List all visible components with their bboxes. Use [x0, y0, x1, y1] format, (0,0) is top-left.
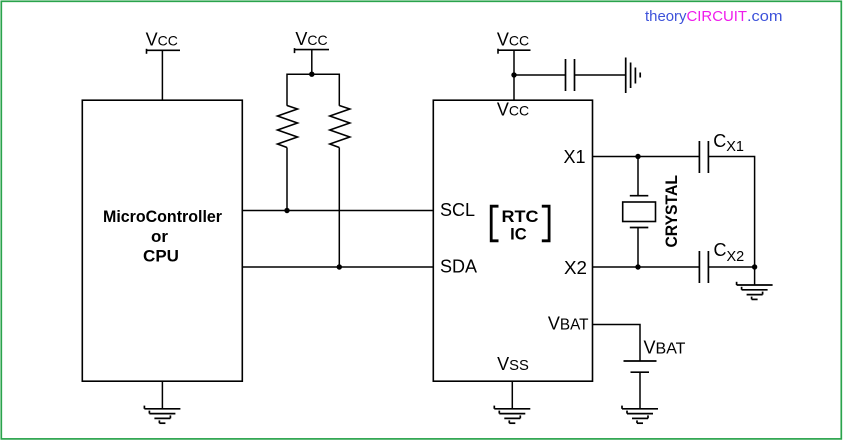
junction split/VCC2 [309, 72, 314, 77]
wire CX1 to CX2 (right leg) [708, 157, 754, 268]
wire X2 (RTC to CX2) [593, 266, 700, 268]
wire junction to ground [754, 267, 756, 285]
IC U1 RTC box [433, 100, 592, 381]
wire MCU to ground [161, 381, 163, 409]
ground GND2 (sideways) [626, 58, 641, 94]
svg-text:theory: theory [645, 8, 687, 25]
svg-text:VCC: VCC [497, 100, 529, 120]
label RTC IC with brackets [491, 206, 549, 243]
wire VCC3 to RTC VCC pin [513, 50, 515, 100]
svg-text:SDA: SDA [440, 257, 477, 277]
svg-text:CPU: CPU [143, 246, 179, 265]
svg-text:VCC: VCC [295, 29, 327, 49]
svg-text:IC: IC [510, 224, 527, 243]
wire C1 to ground [575, 74, 626, 76]
junction R1-SCL [284, 208, 289, 213]
svg-text:CRYSTAL: CRYSTAL [663, 175, 681, 248]
capacitor CX2 [699, 251, 708, 283]
wire VSS to ground [511, 381, 513, 409]
ground GND1 (MCU) [144, 406, 180, 424]
resistor R1 (SCL pull-up) [278, 106, 298, 148]
wire SDA (MCU to RTC) [242, 266, 433, 268]
junction R2-SDA [337, 264, 342, 269]
wire SCL (MCU to RTC) [242, 210, 433, 212]
wire VCC2 down to split [311, 50, 313, 75]
wire VBAT pin to battery [593, 325, 641, 362]
capacitor CX1 [699, 141, 708, 173]
junction crystal-X2 [635, 264, 640, 269]
svg-text:VBAT: VBAT [548, 314, 589, 334]
capacitor C1 (decoupling) [566, 59, 575, 91]
wire CX2 to junction [708, 266, 754, 268]
wire X1 (RTC to CX1) [593, 156, 700, 158]
svg-text:or: or [151, 227, 168, 246]
watermark theoryCIRCUIT.com [645, 8, 783, 25]
junction CX legs / ground [752, 264, 757, 269]
power symbol VCC3 (RTC supply) [498, 49, 531, 54]
wire split bar to both resistors [287, 74, 339, 106]
power symbol VCC1 (MCU supply) [147, 49, 181, 54]
battery BT1 [624, 361, 657, 372]
wire R1 to SCL [286, 148, 288, 211]
wire VCC1 to MCU [161, 50, 163, 100]
svg-text:SCL: SCL [440, 200, 475, 220]
wire R2 to SDA [338, 148, 340, 268]
svg-text:X1: X1 [563, 147, 585, 167]
crystal Y1 [623, 157, 656, 268]
wire to decoupling capacitor [514, 74, 566, 76]
ground GND5 (VSS) [494, 406, 530, 424]
svg-text:VBAT: VBAT [644, 338, 686, 358]
block U2 MicroController/CPU [82, 100, 242, 381]
svg-text:VCC: VCC [497, 30, 529, 50]
svg-text:MicroController: MicroController [103, 207, 222, 226]
junction crystal-X1 [635, 154, 640, 159]
ground GND3 (crystal caps) [737, 282, 773, 300]
svg-text:RTC: RTC [502, 207, 539, 226]
wire battery to ground [639, 372, 641, 409]
ground GND4 (battery) [622, 406, 658, 424]
junction VCC3 / decoupling branch [511, 72, 516, 77]
power symbol VCC2 (pull-up supply) [295, 48, 330, 53]
svg-text:CIRCUIT: CIRCUIT [687, 8, 748, 25]
svg-text:.com: .com [747, 8, 783, 25]
svg-text:X2: X2 [564, 258, 587, 278]
resistor R2 (SDA pull-up) [330, 106, 350, 148]
svg-text:VCC: VCC [146, 30, 178, 50]
